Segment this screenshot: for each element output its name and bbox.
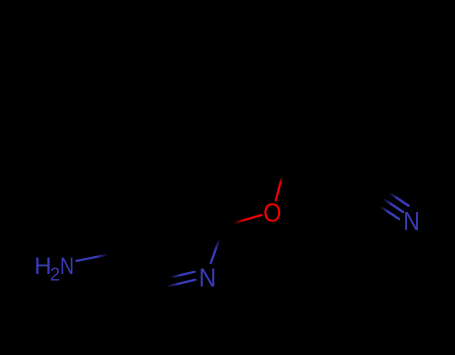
svg-text:2: 2	[50, 264, 60, 284]
svg-text:N: N	[403, 206, 420, 236]
svg-text:H: H	[34, 253, 51, 280]
svg-text:O: O	[263, 197, 281, 227]
svg-text:N: N	[60, 253, 74, 280]
svg-text:N: N	[199, 263, 217, 293]
